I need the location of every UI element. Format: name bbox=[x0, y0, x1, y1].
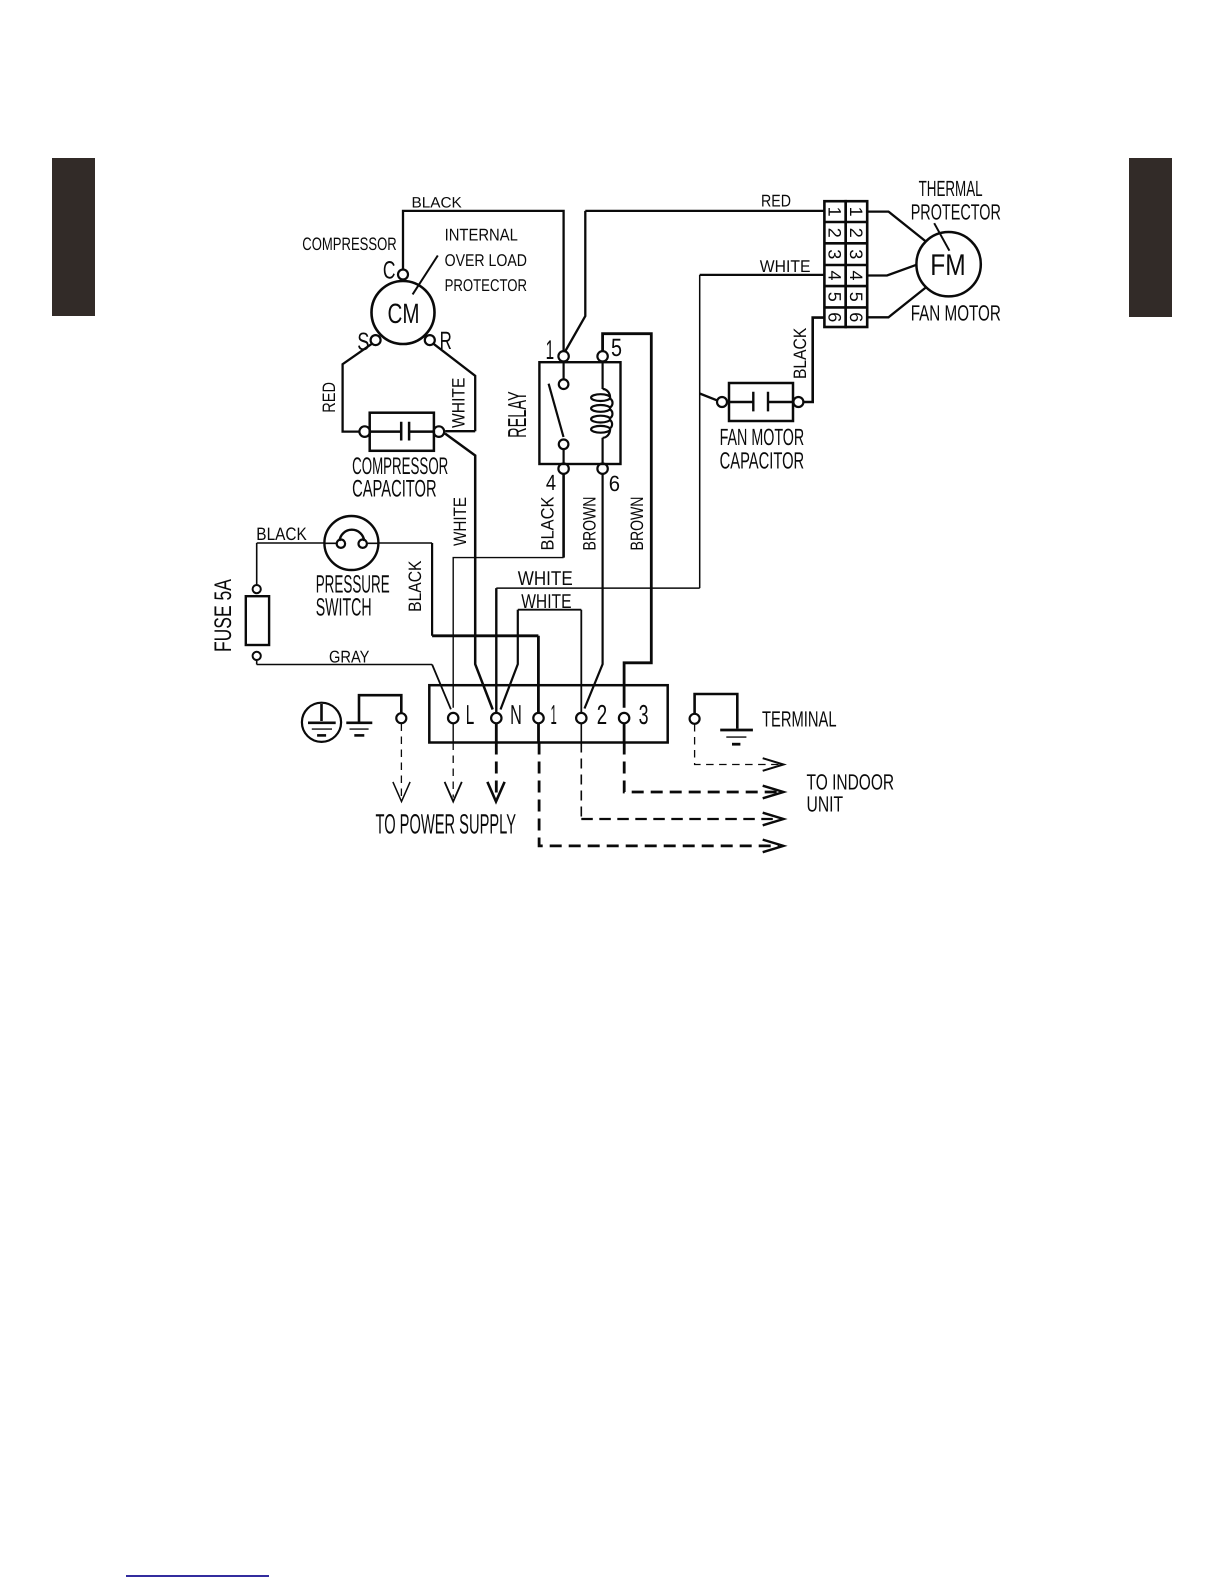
wire black fan capacitor to fan terminal row 6 bbox=[803, 318, 824, 402]
arrow right row3 bbox=[763, 813, 784, 826]
wire red relay pin1 to fan terminal row 1 bbox=[565, 211, 825, 352]
ground terminal node left bbox=[396, 713, 406, 723]
relay pin 5 bbox=[597, 351, 607, 361]
main terminal block bbox=[429, 685, 667, 742]
dashed wire N to power supply bbox=[495, 743, 498, 798]
terminal L bbox=[448, 713, 458, 723]
label THERMAL PROTECTOR bbox=[911, 176, 1001, 225]
svg-text:2: 2 bbox=[824, 228, 844, 238]
svg-text:1: 1 bbox=[824, 207, 844, 217]
fan strip numbers left column bbox=[824, 207, 844, 323]
svg-text:6: 6 bbox=[846, 312, 866, 322]
svg-text:3: 3 bbox=[639, 699, 649, 730]
svg-text:N: N bbox=[510, 699, 522, 730]
svg-text:2: 2 bbox=[597, 699, 607, 730]
wire white N to terminal 2 bbox=[518, 610, 582, 713]
svg-text:C: C bbox=[383, 256, 396, 284]
stubs below terminals bbox=[452, 723, 454, 742]
ground terminal node right bbox=[690, 714, 700, 724]
arrow down N bbox=[487, 782, 504, 802]
leader line thermal protector bbox=[934, 223, 949, 251]
svg-text:6: 6 bbox=[824, 312, 844, 322]
arrow right row4 bbox=[763, 840, 784, 853]
svg-text:FAN MOTOR: FAN MOTOR bbox=[720, 424, 805, 450]
svg-text:BROWN: BROWN bbox=[579, 497, 599, 551]
svg-text:WHITE: WHITE bbox=[521, 591, 571, 613]
svg-text:FM: FM bbox=[930, 249, 965, 282]
relay switch blade bbox=[549, 384, 564, 437]
svg-text:BROWN: BROWN bbox=[627, 497, 647, 551]
svg-text:RED: RED bbox=[761, 192, 791, 211]
svg-text:6: 6 bbox=[609, 471, 620, 496]
svg-text:FAN MOTOR: FAN MOTOR bbox=[911, 300, 1001, 325]
dashed wire L to power supply bbox=[452, 743, 454, 798]
wire brown relay pin5 over to terminal 3 bbox=[603, 334, 652, 708]
wire gray fuse to terminal L bbox=[257, 659, 432, 664]
fuse 5A bbox=[246, 585, 269, 660]
svg-text:WHITE: WHITE bbox=[760, 257, 811, 276]
svg-text:4: 4 bbox=[824, 270, 844, 280]
svg-text:BLACK: BLACK bbox=[538, 497, 558, 551]
dashed wire terminal 3 to indoor unit bbox=[624, 743, 779, 793]
svg-text:GRAY: GRAY bbox=[329, 648, 369, 667]
compressor capacitor bbox=[359, 413, 444, 451]
label TO INDOOR UNIT bbox=[807, 769, 895, 816]
label INTERNAL OVER LOAD PROTECTOR bbox=[445, 226, 527, 295]
wire black compressor C to relay pin 1 bbox=[403, 211, 564, 351]
fan strip numbers right column bbox=[846, 207, 866, 323]
svg-text:BLACK: BLACK bbox=[256, 524, 307, 544]
relay pin 1 bbox=[558, 351, 568, 361]
terminal C of compressor bbox=[398, 270, 408, 280]
earth ground left bracket bbox=[346, 695, 401, 735]
dashed wire terminal 2 to indoor unit bbox=[580, 743, 582, 820]
svg-text:OVER LOAD: OVER LOAD bbox=[445, 251, 527, 270]
svg-text:1: 1 bbox=[546, 335, 555, 365]
svg-text:UNIT: UNIT bbox=[807, 792, 844, 817]
leader line overload protector bbox=[413, 256, 438, 295]
arrow down L bbox=[445, 782, 462, 802]
wire black fuse to pressure switch bbox=[257, 543, 325, 585]
svg-text:3: 3 bbox=[846, 249, 866, 259]
svg-text:L: L bbox=[466, 699, 475, 730]
svg-text:SWITCH: SWITCH bbox=[316, 593, 372, 621]
wire black pressure switch to terminal 1 bbox=[378, 542, 432, 544]
fan motor capacitor bbox=[700, 383, 804, 421]
svg-text:PROTECTOR: PROTECTOR bbox=[911, 199, 1001, 224]
svg-text:5: 5 bbox=[824, 292, 844, 302]
terminal 3 bbox=[619, 713, 629, 723]
arrow down ground bbox=[393, 782, 410, 802]
svg-text:3: 3 bbox=[824, 249, 844, 259]
earth ground circle symbol bbox=[302, 703, 341, 742]
svg-text:BLACK: BLACK bbox=[405, 561, 425, 612]
terminal R of compressor bbox=[425, 335, 435, 345]
relay coil bbox=[591, 389, 612, 438]
wire red compressor S to capacitor bbox=[343, 344, 372, 432]
wire white row4 bbox=[700, 274, 825, 276]
fan motor FM bbox=[916, 232, 980, 296]
svg-text:WHITE: WHITE bbox=[450, 497, 470, 546]
svg-text:1: 1 bbox=[551, 699, 557, 730]
wire white fan motor to N bbox=[496, 275, 699, 588]
svg-text:WHITE: WHITE bbox=[449, 378, 469, 428]
compressor motor CM bbox=[372, 281, 435, 344]
relay switch contact lower bbox=[559, 440, 569, 450]
terminal 2 bbox=[576, 713, 586, 723]
svg-text:4: 4 bbox=[846, 270, 866, 280]
dashed wire ground to power supply bbox=[400, 724, 402, 798]
label FAN MOTOR CAPACITOR bbox=[720, 424, 805, 474]
svg-text:5: 5 bbox=[611, 334, 622, 362]
svg-text:5: 5 bbox=[846, 292, 866, 302]
decorative footer rule bbox=[126, 1575, 269, 1577]
svg-text:PROTECTOR: PROTECTOR bbox=[445, 276, 527, 295]
dashed wire terminal 1 to indoor unit bbox=[539, 743, 779, 846]
svg-text:RED: RED bbox=[319, 382, 339, 413]
relay pin 6 bbox=[597, 464, 607, 474]
svg-text:2: 2 bbox=[846, 228, 866, 238]
svg-text:CAPACITOR: CAPACITOR bbox=[352, 475, 437, 502]
terminal N bbox=[491, 713, 501, 723]
decorative sidebar left bbox=[52, 158, 95, 316]
relay switch contact upper bbox=[559, 379, 569, 389]
svg-text:TERMINAL: TERMINAL bbox=[762, 707, 837, 732]
svg-text:CAPACITOR: CAPACITOR bbox=[720, 448, 805, 474]
arrow right row1 bbox=[763, 758, 784, 771]
decorative sidebar right bbox=[1129, 158, 1172, 317]
svg-text:CM: CM bbox=[388, 298, 420, 329]
relay pin 4 bbox=[558, 464, 568, 474]
label PRESSURE SWITCH bbox=[316, 570, 390, 621]
terminal 1 bbox=[533, 713, 543, 723]
wires fan strip to FM bbox=[867, 212, 926, 318]
svg-text:4: 4 bbox=[546, 470, 556, 495]
terminal S of compressor bbox=[371, 335, 381, 345]
wire white capacitor to terminal N bbox=[445, 434, 493, 710]
svg-text:BLACK: BLACK bbox=[790, 328, 810, 379]
svg-text:RELAY: RELAY bbox=[502, 391, 532, 438]
pressure switch bbox=[324, 516, 378, 570]
svg-text:1: 1 bbox=[846, 207, 866, 217]
relay internal wires bbox=[564, 362, 603, 464]
svg-text:THERMAL: THERMAL bbox=[919, 176, 983, 201]
svg-text:COMPRESSOR: COMPRESSOR bbox=[302, 234, 396, 254]
fan motor terminal strip bbox=[824, 201, 867, 327]
svg-text:INTERNAL: INTERNAL bbox=[445, 226, 518, 245]
wire white compressor R down bbox=[433, 344, 475, 432]
wire black relay pin4 to terminal L bbox=[562, 474, 565, 558]
relay box bbox=[539, 362, 620, 464]
svg-text:BLACK: BLACK bbox=[412, 195, 462, 212]
svg-text:FUSE 5A: FUSE 5A bbox=[210, 579, 237, 652]
label COMPRESSOR CAPACITOR bbox=[352, 453, 448, 503]
svg-text:TO POWER SUPPLY: TO POWER SUPPLY bbox=[376, 808, 517, 839]
dashed wire ground right to indoor unit bbox=[695, 724, 779, 765]
arrow right row2 bbox=[763, 786, 784, 799]
svg-text:WHITE: WHITE bbox=[518, 568, 573, 590]
wire brown relay pin6 to terminal 2 bbox=[585, 474, 603, 709]
earth ground right bracket bbox=[695, 694, 753, 744]
